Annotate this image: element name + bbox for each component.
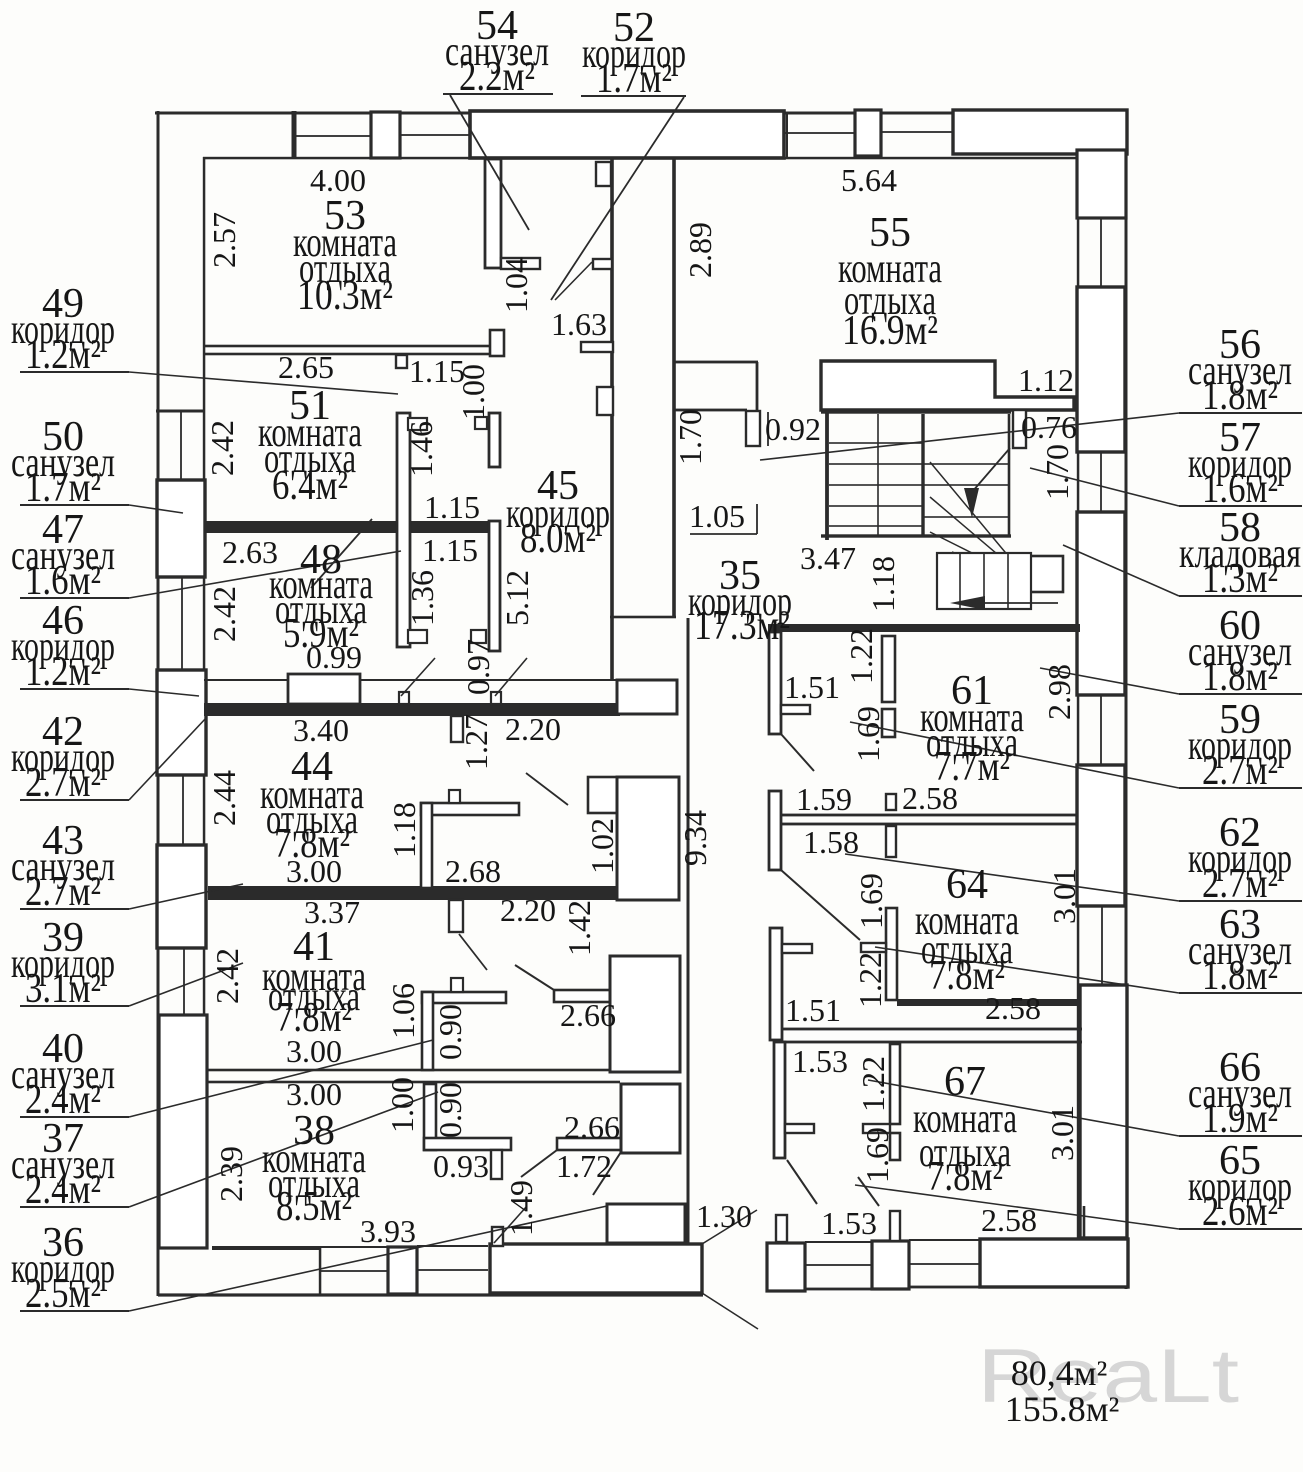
top wall window 1 sill line xyxy=(296,135,371,137)
label 66 underline xyxy=(1179,1135,1302,1137)
label 39 underline xyxy=(20,1005,129,1007)
label 40 underline xyxy=(20,1116,129,1118)
svg-text:2.4м²: 2.4м² xyxy=(25,1167,101,1213)
stair down-arrow head xyxy=(964,488,979,518)
door jamb on 3.40 wall (left) xyxy=(399,692,409,704)
svg-text:3.01: 3.01 xyxy=(1044,1105,1080,1161)
svg-text:1.04: 1.04 xyxy=(498,257,534,313)
leader line label 62 xyxy=(845,854,1179,901)
vestibule 61 west wall xyxy=(769,632,781,734)
leader line label 60 xyxy=(1040,668,1179,694)
corridor 45 / shaft left wall xyxy=(397,413,410,647)
tick to jamb 0.99/0.97 left xyxy=(401,658,435,696)
left wall window L5 mid line xyxy=(182,775,184,845)
bottom wall left: window BW1 top line xyxy=(320,1246,388,1248)
tick to jamb 0.97 right xyxy=(495,658,527,696)
wall 44/41 thick band xyxy=(208,886,620,900)
right wall window R5 caps xyxy=(1078,764,1125,766)
svg-text:1.00: 1.00 xyxy=(384,1077,420,1133)
corridor 45 left wall upper piece xyxy=(489,413,500,467)
bottom wall right: window BW3 lines xyxy=(805,1241,872,1243)
stair top wall line xyxy=(821,410,1011,413)
svg-text:4.00: 4.00 xyxy=(310,162,366,198)
leader line label 40 xyxy=(129,1040,433,1117)
svg-text:1.3м²: 1.3м² xyxy=(1202,556,1278,602)
svg-text:1.9м²: 1.9м² xyxy=(1202,1096,1278,1142)
corridor 36 west wall line xyxy=(687,618,690,1243)
door swing room 38 a xyxy=(521,1150,557,1177)
svg-text:3.37: 3.37 xyxy=(304,894,360,930)
lower stair treads xyxy=(959,553,961,609)
svg-text:0.90: 0.90 xyxy=(432,1082,468,1138)
svg-text:2.63: 2.63 xyxy=(222,534,278,570)
bottom wall left: window BW1 cap xyxy=(319,1247,322,1294)
door rect on x=612 wall xyxy=(597,387,613,415)
door jamb right of stair top (0.76 door) xyxy=(1013,410,1026,448)
tick near 0.92 xyxy=(767,412,769,446)
left wall window L1 mid line xyxy=(180,412,182,480)
left wall pier L2 xyxy=(157,480,205,577)
svg-text:1.05: 1.05 xyxy=(689,498,745,534)
room 44 niche wall piece xyxy=(588,777,617,813)
leader line label 42 xyxy=(129,717,207,800)
svg-text:3.01: 3.01 xyxy=(1046,868,1082,924)
wall end bar 1.00 at right of 53/51 wall xyxy=(490,330,504,356)
right wall window R1 mid line xyxy=(1100,218,1102,287)
svg-text:1.00: 1.00 xyxy=(455,364,491,420)
outer wall: top inner line xyxy=(203,157,1077,160)
svg-text:0.97: 0.97 xyxy=(460,639,496,695)
label 42 underline xyxy=(20,799,129,801)
left wall window L5 caps xyxy=(157,844,205,846)
door jamb below 53/51 wall xyxy=(396,355,407,368)
svg-text:1.8м²: 1.8м² xyxy=(1202,373,1278,419)
svg-text:3.93: 3.93 xyxy=(360,1213,416,1249)
svg-text:1.53: 1.53 xyxy=(821,1205,877,1241)
left wall window L1 caps xyxy=(157,479,204,481)
svg-text:10.3м²: 10.3м² xyxy=(297,273,393,319)
wall between rooms 53 and 51 xyxy=(204,345,490,348)
jamb left of corridor 45 wall top xyxy=(475,417,487,429)
svg-text:2.66: 2.66 xyxy=(564,1109,620,1145)
svg-text:5.12: 5.12 xyxy=(499,570,535,626)
central wall x=674 (room 55 left / corridor 52) xyxy=(672,158,676,618)
svg-text:0.90: 0.90 xyxy=(432,1004,468,1060)
stair right boundary xyxy=(1008,414,1011,536)
winder stair fan lines xyxy=(930,462,1030,582)
leader line label 56 xyxy=(760,413,1179,460)
room 38 right wall segment xyxy=(557,1138,621,1150)
stair treads left flight xyxy=(829,442,923,444)
right wall pier R4 (stair landing) xyxy=(1077,512,1125,695)
svg-text:1.70: 1.70 xyxy=(1039,444,1075,500)
wall between 64 area and 67 (double) xyxy=(783,1028,1082,1031)
top wall pier TP3 xyxy=(855,110,881,156)
svg-text:2.39: 2.39 xyxy=(213,1146,249,1202)
bottom wall left: outer line xyxy=(158,1293,703,1296)
door jamb on bottom wall right (1.53 left) xyxy=(776,1215,787,1242)
bottom wall pier BP1 xyxy=(388,1247,417,1294)
left wall pier L6 xyxy=(157,845,206,948)
jamb at bottom of corridor 45 wall xyxy=(471,630,486,643)
vestibule 67 west wall upper xyxy=(770,928,782,1040)
ledge pier 0.99 xyxy=(288,674,360,704)
svg-text:3.1м²: 3.1м² xyxy=(25,966,101,1012)
wall between rooms 51 and 48 (thick) xyxy=(204,521,500,533)
bottom wall right: small block left of window xyxy=(767,1243,805,1291)
svg-text:1.42: 1.42 xyxy=(561,900,597,956)
corridor 57 top wall line xyxy=(675,361,758,364)
leader line label 37 xyxy=(129,1092,438,1207)
svg-text:1.59: 1.59 xyxy=(796,781,852,817)
label 46 underline xyxy=(20,688,129,690)
svg-text:2.7м²: 2.7м² xyxy=(1202,748,1278,794)
door jamb below corridor 57 xyxy=(746,411,760,446)
svg-text:2.58: 2.58 xyxy=(981,1202,1037,1238)
svg-text:2.57: 2.57 xyxy=(206,212,242,268)
jamb at bottom of shaft left wall xyxy=(408,630,427,643)
door jamb bar on x=612 wall (mid2) xyxy=(581,342,613,352)
stub in vestibule 61 xyxy=(781,705,810,714)
svg-text:2.20: 2.20 xyxy=(505,711,561,747)
svg-text:2.7м²: 2.7м² xyxy=(25,869,101,915)
svg-text:1.8м²: 1.8м² xyxy=(1202,654,1278,700)
svg-text:1.27: 1.27 xyxy=(458,714,494,770)
central shaft column piece C xyxy=(610,956,680,1072)
svg-text:1.58: 1.58 xyxy=(803,824,859,860)
label 36 underline xyxy=(20,1310,129,1312)
stair left wall xyxy=(825,410,829,540)
door jamb column room 61 lower xyxy=(882,709,895,737)
top wall pier TP1 xyxy=(371,112,400,158)
door jamb below 44/41 wall xyxy=(449,900,463,932)
stair bottom wall line xyxy=(821,534,1011,537)
leader line label 47 xyxy=(129,551,401,598)
central shaft column piece F (bottom porch) xyxy=(607,1204,685,1243)
svg-text:1.7м²: 1.7м² xyxy=(596,56,672,102)
svg-text:1.18: 1.18 xyxy=(865,556,901,612)
leader line label 59 xyxy=(850,722,1179,788)
label 49 underline xyxy=(20,371,129,373)
bottom wall left: inner thick segment under room 38 xyxy=(212,1246,320,1250)
svg-text:2.20: 2.20 xyxy=(500,892,556,928)
room 44 closet partition (L-shape) xyxy=(421,803,519,815)
vestibule 67 west wall lower xyxy=(774,1042,785,1158)
leader line label 50 xyxy=(129,505,183,513)
door swing room 44 niche xyxy=(526,773,568,805)
room 38 closet partition (L-shape) xyxy=(424,1084,436,1150)
top wall window 1 end caps xyxy=(370,113,372,158)
leader line label 43 xyxy=(129,884,243,909)
svg-text:1.69: 1.69 xyxy=(853,873,889,929)
door swing vestibule 64 xyxy=(781,870,860,940)
top wall long pier TP2 above rooms 53/corridor xyxy=(470,111,784,158)
label 43 underline xyxy=(20,908,129,910)
top wall window 3 sill line xyxy=(784,132,855,134)
door jamb on x=612 wall (top) xyxy=(596,162,611,186)
label 63 underline xyxy=(1179,992,1302,994)
bottom wall right pier BP2 xyxy=(872,1241,909,1289)
svg-text:1.22: 1.22 xyxy=(852,952,888,1008)
storage 58 rectangle xyxy=(1030,556,1063,592)
door jamb column room 61 upper xyxy=(882,636,895,702)
svg-text:3.40: 3.40 xyxy=(293,712,349,748)
door jamb on 3.40 wall (right) xyxy=(491,692,501,704)
right wall pier R2 xyxy=(1077,287,1125,452)
svg-text:3.00: 3.00 xyxy=(286,853,342,889)
stub left of room 67 wall xyxy=(863,1124,890,1133)
hall 35 west connector line xyxy=(610,616,676,619)
label 52 underline xyxy=(581,95,686,97)
leader line label 36 xyxy=(129,1206,607,1311)
door swing vestibule 61 xyxy=(781,734,814,771)
svg-text:0.93: 0.93 xyxy=(433,1148,489,1184)
stair left-arrow head xyxy=(950,596,985,610)
svg-text:6.4м²: 6.4м² xyxy=(272,463,348,509)
svg-text:7.8м²: 7.8м² xyxy=(927,1154,1003,1200)
svg-text:2.44: 2.44 xyxy=(206,770,242,826)
svg-text:3.00: 3.00 xyxy=(286,1076,342,1112)
door swing room 41 xyxy=(515,965,554,990)
svg-text:1.15: 1.15 xyxy=(424,489,480,525)
central shaft column piece B xyxy=(617,777,679,900)
left wall pier L4 xyxy=(157,670,206,775)
corridor 45 right wall (long vertical x=612) xyxy=(610,158,614,680)
svg-text:80,4м²: 80,4м² xyxy=(1011,1353,1108,1393)
svg-text:2.7м²: 2.7м² xyxy=(1202,861,1278,907)
wall 41/38 double lines xyxy=(208,1069,620,1072)
top wall top-right corner block xyxy=(953,110,1127,154)
svg-text:2.65: 2.65 xyxy=(278,349,334,385)
svg-text:2.58: 2.58 xyxy=(902,780,958,816)
wall room 67 west lower piece xyxy=(890,1133,900,1160)
top wall window 2 sill line xyxy=(400,134,470,136)
leader line label 46 xyxy=(129,689,199,696)
bottom wall left block to gap xyxy=(490,1244,702,1293)
jamb above room 41 partition xyxy=(451,978,463,992)
stair down-arrow tail xyxy=(972,448,1010,492)
wall above room 61 vestibule (thick) xyxy=(768,624,1080,632)
svg-text:1.70: 1.70 xyxy=(672,409,708,465)
svg-text:1.63: 1.63 xyxy=(551,306,607,342)
svg-text:1.72: 1.72 xyxy=(556,1148,612,1184)
outer wall: right outer line xyxy=(1125,111,1128,1289)
svg-text:1.15: 1.15 xyxy=(422,532,478,568)
door jamb on bottom wall right (1.53 right) xyxy=(890,1211,900,1241)
bottom wall left: window BW2 top line xyxy=(417,1245,488,1247)
right wall corner pier xyxy=(1077,150,1126,218)
stair tread divider xyxy=(877,414,879,536)
svg-text:2.6м²: 2.6м² xyxy=(1202,1189,1278,1235)
svg-text:3.47: 3.47 xyxy=(800,540,856,576)
left wall window L3 mid line xyxy=(181,577,183,670)
outer wall: left outer line xyxy=(157,111,160,1296)
svg-text:1.12: 1.12 xyxy=(1018,362,1074,398)
room 67 east wall stub xyxy=(1083,1206,1086,1240)
svg-text:2.68: 2.68 xyxy=(445,853,501,889)
label 47 underline xyxy=(20,597,129,599)
outer wall: right inner line xyxy=(1077,157,1080,1241)
stub in vestibule 67 xyxy=(785,1124,814,1133)
svg-text:2.42: 2.42 xyxy=(209,948,245,1004)
svg-text:1.36: 1.36 xyxy=(404,570,440,626)
wall between 61 and 64 (double) xyxy=(770,814,1078,817)
door jamb below 3.40 wall (1.27) xyxy=(451,716,463,742)
bottom wall left: window BW1 mid line xyxy=(320,1270,388,1272)
label 56 underline xyxy=(1179,412,1302,414)
svg-text:1.46: 1.46 xyxy=(403,421,439,477)
central shaft column piece D xyxy=(621,1084,680,1153)
svg-text:2.42: 2.42 xyxy=(204,420,240,476)
corridor 57 bottom wall line xyxy=(675,409,747,412)
left wall bottom pier L8 xyxy=(159,1015,207,1248)
svg-text:1.18: 1.18 xyxy=(386,802,422,858)
svg-text:1.02: 1.02 xyxy=(584,818,620,874)
label 65 underline xyxy=(1179,1228,1302,1230)
top wall window 4 sill line xyxy=(881,131,953,133)
label 59 underline xyxy=(1179,787,1302,789)
wall stub right of room 54 wall xyxy=(501,258,540,269)
door swing below 2.20 wall xyxy=(459,934,487,970)
leader line label 49 xyxy=(129,372,398,394)
door jamb on x=612 wall (mid1) xyxy=(593,259,612,269)
svg-text:2.7м²: 2.7м² xyxy=(25,760,101,806)
leader line label 39 xyxy=(129,963,243,1006)
room 54 left wall (vertical, top centre) xyxy=(485,159,501,268)
left wall corner cap at bottom of top-left block xyxy=(156,410,205,413)
bottom wall right corner block xyxy=(980,1239,1128,1287)
label 37 underline xyxy=(20,1206,129,1208)
svg-text:3.00: 3.00 xyxy=(286,1033,342,1069)
room 41 right wall segment xyxy=(554,990,619,1002)
bottom wall left: window BW2 mid line xyxy=(417,1269,488,1271)
outer wall: left inner line xyxy=(203,157,206,1249)
leader line label 52 xyxy=(551,97,684,300)
left wall window L7 caps xyxy=(158,1014,205,1016)
label 57 underline xyxy=(1179,505,1302,507)
right wall window R3 mid line xyxy=(1100,452,1102,512)
room 64 bottom wall (thick) xyxy=(897,999,1080,1006)
corridor 45 left wall lower piece xyxy=(489,521,500,651)
leader line label 58 xyxy=(1063,545,1179,596)
svg-text:2.42: 2.42 xyxy=(206,586,242,642)
svg-text:1.7м²: 1.7м² xyxy=(25,465,101,511)
svg-text:0.76: 0.76 xyxy=(1021,409,1077,445)
svg-text:1.2м²: 1.2м² xyxy=(25,332,101,378)
door swing room 38 b xyxy=(593,1152,621,1195)
right wall window R5 mid line xyxy=(1100,695,1102,765)
door callout 1.30 leader V xyxy=(702,1210,757,1244)
label 54 underline xyxy=(443,93,553,95)
svg-text:2.98: 2.98 xyxy=(1041,664,1077,720)
wall 48/44 with 0.99 ledge: thin face line xyxy=(204,679,619,681)
jamb at top of shaft left wall xyxy=(408,418,427,430)
right wall pier R8 (bottom right) xyxy=(1080,985,1127,1238)
label 62 underline xyxy=(1179,900,1302,902)
corridor 57 east wall xyxy=(756,362,759,410)
door jamb at bottom wall (1.49) xyxy=(492,1227,503,1246)
leader line label 54 xyxy=(450,95,529,230)
top wall window 3 caps xyxy=(786,112,788,157)
svg-text:1.49: 1.49 xyxy=(503,1180,539,1236)
right wall pier R6 xyxy=(1077,765,1125,906)
leader line label 66 xyxy=(868,1080,1179,1136)
door jamb room 64 mid xyxy=(886,826,896,857)
outer wall: top outer line xyxy=(155,112,1128,115)
door swing vestibule 67 a xyxy=(787,1160,817,1204)
svg-text:8.5м²: 8.5м² xyxy=(276,1184,352,1230)
door jamb room 64 upper xyxy=(886,794,896,810)
lower mini stair rect xyxy=(937,553,1031,609)
door jamb below room 38 partition xyxy=(491,1150,502,1179)
leader line label 57 xyxy=(1030,468,1179,506)
top wall corner pier bar xyxy=(292,111,297,159)
svg-text:2.89: 2.89 xyxy=(682,222,718,278)
svg-text:1.8м²: 1.8м² xyxy=(1202,953,1278,999)
svg-text:2.2м²: 2.2м² xyxy=(459,54,535,100)
svg-text:1.22: 1.22 xyxy=(843,628,879,684)
stub left of room 64 wall xyxy=(861,943,886,952)
stair treads right flight xyxy=(923,463,1009,465)
svg-text:5.64: 5.64 xyxy=(841,162,897,198)
right wall window R7 mid line xyxy=(1101,906,1103,985)
left wall window L3 caps xyxy=(157,669,204,671)
wall room 64 west piece xyxy=(886,908,897,1000)
svg-text:2.66: 2.66 xyxy=(560,997,616,1033)
label 50 underline xyxy=(20,504,129,506)
svg-text:9.34: 9.34 xyxy=(677,810,713,866)
svg-text:1.2м²: 1.2м² xyxy=(25,649,101,695)
bottom wall right: window BW4 lines xyxy=(909,1239,980,1241)
svg-text:1.51: 1.51 xyxy=(784,669,840,705)
label 60 underline xyxy=(1179,693,1302,695)
room 55 bottom wall band (thick outlined) xyxy=(821,361,1074,410)
svg-text:17.3м²: 17.3м² xyxy=(694,603,790,649)
leader line label 63 xyxy=(875,947,1179,993)
right wall window R1 caps xyxy=(1078,286,1126,288)
stub in vestibule 62/59 xyxy=(782,944,812,953)
svg-text:1.53: 1.53 xyxy=(792,1043,848,1079)
stair mid wall xyxy=(921,414,924,536)
vestibule 64 west wall xyxy=(769,791,781,870)
left wall window L7 mid line xyxy=(183,948,185,1015)
leader 1.63 xyxy=(555,262,592,300)
svg-text:1.06: 1.06 xyxy=(385,983,421,1039)
svg-text:0.99: 0.99 xyxy=(306,639,362,675)
central shaft column piece A xyxy=(617,680,677,714)
svg-text:1.51: 1.51 xyxy=(785,992,841,1028)
svg-text:2.58: 2.58 xyxy=(985,990,1041,1026)
svg-text:0.92: 0.92 xyxy=(765,411,821,447)
leader line label 65 xyxy=(855,1185,1179,1229)
label 58 underline xyxy=(1179,595,1302,597)
bracket for 1.05 xyxy=(690,533,757,535)
svg-text:16.9м²: 16.9м² xyxy=(842,308,938,354)
door swing 1.15 in room 48 xyxy=(311,519,372,588)
svg-text:2.5м²: 2.5м² xyxy=(25,1271,101,1317)
room 41 closet partition (L-shape) xyxy=(422,992,506,1003)
svg-text:1.69: 1.69 xyxy=(859,1127,895,1183)
svg-text:1.22: 1.22 xyxy=(855,1056,891,1112)
svg-text:1.69: 1.69 xyxy=(850,706,886,762)
wall room 67 west upper piece xyxy=(890,1044,900,1124)
svg-text:155.8м²: 155.8м² xyxy=(1005,1389,1120,1429)
svg-text:1.30: 1.30 xyxy=(696,1198,752,1234)
door swing vestibule 67 b xyxy=(858,1177,879,1206)
svg-text:8.0м²: 8.0м² xyxy=(520,516,596,562)
stair left-arrow tail xyxy=(985,602,1058,604)
leader 1.49 xyxy=(494,1206,527,1243)
